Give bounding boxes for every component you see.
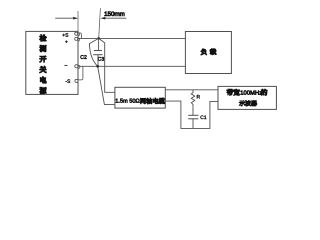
capacitor C3 [93,38,104,66]
wire coax core [165,89,218,91]
capacitor C2 label [80,55,83,59]
oscilloscope box (100MHz scope) [218,86,276,109]
terminal + connector [65,37,79,43]
terminal - connector [64,65,80,69]
load box (负载) [185,32,231,74]
wire coax funnel right [99,38,115,92]
terminal +S connector [62,32,81,38]
coax cable box (1.5m 50ohm coaxial) [115,87,165,108]
terminal -S connector [66,67,83,83]
dimension annotation 150mm [55,8,126,38]
node measurement junction [97,37,100,40]
wire - rail [78,65,185,67]
power supply box (检测开关电源) [26,31,78,94]
node funnel ground junction [96,65,99,68]
wire + rail [78,37,185,39]
resistor R [191,90,200,116]
capacitor C1 [188,115,206,128]
wire coax shield return [165,101,218,128]
wire coax funnel left [89,38,115,104]
